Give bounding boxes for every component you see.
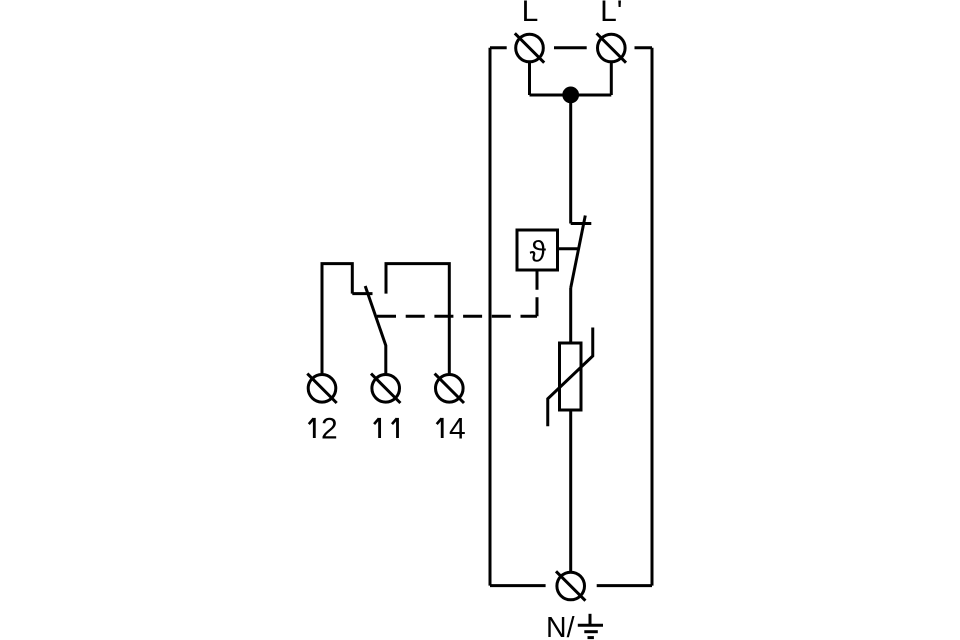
- wire from L down: [528, 62, 531, 95]
- svg-text:L: L: [522, 0, 539, 28]
- label 14: [437, 412, 466, 445]
- dashed link vertical: [536, 270, 539, 316]
- wire horizontal joining L and L': [530, 94, 612, 97]
- wire junction down to disconnector: [569, 95, 572, 224]
- svg-text:L': L': [600, 0, 622, 28]
- ground symbol: [578, 614, 603, 638]
- thermal element box: [517, 230, 558, 270]
- thermal disconnector blade: [571, 216, 586, 289]
- svg-text:4: 4: [449, 412, 466, 445]
- terminal L: [515, 33, 544, 62]
- label 11: [374, 418, 397, 438]
- terminal 14: [435, 374, 464, 403]
- link thermal box to blade: [558, 247, 579, 250]
- label 12: [309, 412, 338, 445]
- svg-text:N/: N/: [546, 612, 575, 640]
- svg-text:2: 2: [321, 412, 338, 445]
- terminal N/earth: [556, 571, 585, 600]
- thermal disconnector contact bar: [571, 222, 592, 225]
- node junction dot: [562, 87, 579, 104]
- dashed link horizontal to signal contact: [377, 315, 537, 318]
- wire terminal 14 up and over (NO fixed contact): [386, 264, 449, 375]
- enclosure right edge: [651, 48, 654, 586]
- varistor body: [560, 343, 582, 410]
- wire terminal 12 up and over (NC fixed contact): [322, 264, 352, 375]
- svg-text:ϑ: ϑ: [530, 236, 547, 269]
- signal contact blade: [365, 286, 386, 375]
- varistor diagonal stroke: [548, 328, 593, 427]
- terminal 12: [307, 374, 336, 403]
- enclosure top edge segments: [490, 46, 652, 49]
- NC contact bar: [352, 292, 372, 295]
- wire from L' down: [610, 62, 613, 95]
- terminal 11: [371, 374, 400, 403]
- enclosure bottom edge segments: [490, 584, 652, 587]
- wire varistor to N terminal: [569, 410, 572, 572]
- wire disconnector to varistor: [569, 288, 572, 343]
- enclosure left edge: [489, 48, 492, 586]
- terminal L': [597, 33, 626, 62]
